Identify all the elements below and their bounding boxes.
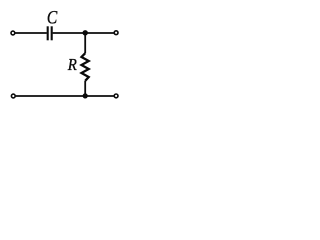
wire resistor bottom lead [84, 81, 86, 96]
wire top-left (terminal to capacitor) [15, 32, 47, 34]
svg-text:R: R [67, 56, 77, 74]
node bottom junction [83, 93, 88, 98]
resistor R1 zigzag [82, 53, 89, 81]
node top junction [83, 30, 88, 35]
terminal bottom-right [114, 94, 118, 98]
terminal bottom-left [11, 94, 15, 98]
terminal top-right [114, 31, 118, 35]
svg-text:C: C [47, 7, 58, 28]
wire resistor top lead [84, 33, 86, 53]
wire bottom [16, 95, 114, 97]
terminal top-left [11, 31, 15, 35]
wire top-right (capacitor to terminal) [53, 32, 114, 34]
capacitor C1 plates [48, 26, 52, 40]
